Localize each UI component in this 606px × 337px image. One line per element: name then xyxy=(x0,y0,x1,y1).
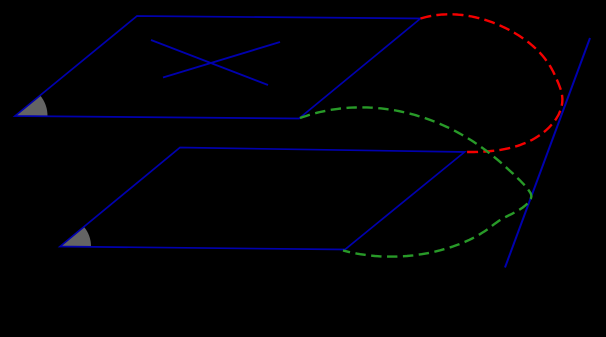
angle wedge at lower-left vertex of top plane xyxy=(15,95,48,116)
green dashed arc from D to D2 xyxy=(300,107,531,256)
transversal line l xyxy=(505,38,590,268)
plane alpha (top parallelogram) xyxy=(15,16,421,119)
cross segment 2 inside top plane xyxy=(163,42,280,78)
cross segment 1 inside top plane xyxy=(151,40,268,85)
angle wedge at lower-left vertex of bottom plane xyxy=(60,227,91,247)
red dashed arc from C to C2 xyxy=(421,14,563,152)
plane beta (bottom parallelogram) xyxy=(60,148,465,250)
